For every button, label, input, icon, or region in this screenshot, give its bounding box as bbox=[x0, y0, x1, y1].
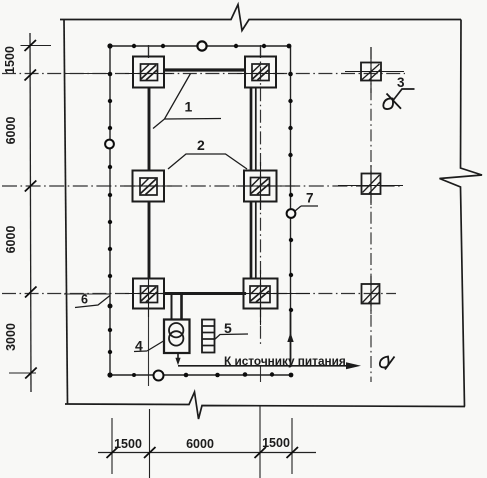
row 1 centerline bbox=[2, 73, 405, 75]
earth electrode E2 (pos.2) row1 col2 bbox=[237, 57, 284, 88]
column 1 vertical conductor upper bbox=[148, 87, 151, 171]
leader of label 2 bbox=[168, 154, 247, 169]
earth electrode E5 (pos.2) row3 col1 bbox=[125, 270, 172, 317]
leader of label 5 bbox=[214, 334, 248, 340]
left dimension ticks bbox=[25, 40, 37, 379]
leader of label 4 bbox=[147, 341, 164, 351]
grounding contour strip right side bbox=[290, 46, 292, 312]
svg-text:5: 5 bbox=[224, 320, 232, 336]
earth electrode E3 (pos.2) row2 col1 bbox=[124, 171, 172, 202]
future electrode (pos.3) row3 col3 bbox=[362, 276, 380, 314]
svg-text:6000: 6000 bbox=[4, 226, 18, 254]
open circle on contour bottom bbox=[154, 371, 164, 381]
future electrode (pos.3) row2 col3 bbox=[338, 165, 403, 205]
left dimension line bbox=[30, 33, 31, 392]
row 3 centerline solid segment wall-to-contour bbox=[64, 293, 110, 295]
stub contour-to-square row1 col1 bbox=[148, 46, 150, 57]
row 3 centerline bbox=[2, 293, 396, 295]
bottom extension line x=292 bbox=[291, 418, 293, 474]
contour electrode dots left side bbox=[107, 72, 112, 378]
leader shelf of label 3 bbox=[393, 89, 415, 101]
svg-text:1500: 1500 bbox=[262, 436, 290, 450]
column 2 line crossing bottom contour bbox=[260, 366, 262, 382]
stub contour-to-square row1 col2 bbox=[260, 46, 262, 57]
future electrode (pos.3) row1 col3 bbox=[345, 47, 404, 93]
svg-text:3000: 3000 bbox=[4, 323, 18, 351]
open circle item 7 on contour right bbox=[287, 209, 296, 218]
column 3 centerline bbox=[370, 47, 372, 382]
transformer box (pos.4) bbox=[164, 320, 190, 354]
transformer output drop with down arrow bbox=[177, 353, 179, 359]
marker glyph of pos.3 (flag) bbox=[383, 98, 393, 109]
contour electrode dots bottom side bbox=[132, 372, 293, 377]
svg-text:1: 1 bbox=[185, 99, 193, 115]
building outline top wall with break bbox=[60, 5, 461, 31]
leader of label 7 bbox=[295, 206, 301, 211]
svg-text:6000: 6000 bbox=[4, 117, 18, 145]
riser to contour with up arrow bbox=[290, 312, 292, 367]
open circle on contour top bbox=[197, 41, 206, 50]
bottom dimension line bbox=[98, 452, 316, 454]
svg-text:3: 3 bbox=[397, 75, 405, 90]
building outline right wall with break bbox=[440, 20, 483, 407]
leader of label 6 bbox=[75, 296, 110, 308]
contour electrode dots top side bbox=[107, 43, 291, 48]
grounding contour strip left side bbox=[109, 46, 111, 375]
svg-text:6: 6 bbox=[81, 293, 88, 307]
column 2 vertical conductor upper (double run) bbox=[250, 87, 253, 171]
column 2 centerline bbox=[260, 45, 262, 344]
ground bus row 3 horizontal conductor bbox=[164, 292, 246, 295]
svg-text:6000: 6000 bbox=[186, 437, 214, 451]
grounding contour strip (pos.6) top side bbox=[110, 45, 289, 47]
bottom extension line x=112 bbox=[111, 418, 113, 474]
building outline left wall bbox=[64, 20, 68, 405]
column 1 centerline bbox=[148, 45, 150, 60]
earth electrode E1 (pos.2) row1 col1 bbox=[125, 57, 172, 88]
leader of label 1 bbox=[153, 74, 191, 129]
building outline bottom wall with break bbox=[65, 392, 465, 419]
section marker glyph near arrow (bottom right) bbox=[380, 357, 389, 368]
earth electrode E6 (pos.2) row3 col2 bbox=[235, 270, 310, 325]
row 2 centerline bbox=[2, 185, 403, 187]
ground bus (pos.1) top horizontal conductor bbox=[163, 68, 245, 71]
svg-text:1500: 1500 bbox=[3, 46, 17, 74]
to-power-source line with arrow bbox=[178, 365, 349, 367]
left dimension extension line at bottom bbox=[9, 372, 36, 374]
contour electrode dots right side bbox=[288, 72, 293, 312]
connection strip ladder (pos.5) bbox=[202, 320, 215, 353]
grounding contour strip bottom side bbox=[110, 374, 291, 376]
svg-text:7: 7 bbox=[306, 191, 314, 206]
column 2 vertical conductor lower (double run) bbox=[250, 202, 253, 279]
svg-text:1500: 1500 bbox=[114, 437, 142, 451]
bottom extension line x=260 bbox=[259, 406, 261, 478]
conductor elbow down to transformer (double run) bbox=[171, 294, 173, 321]
left dimension extension line at contour top bbox=[21, 45, 52, 47]
column 1 line below bottom electrode bbox=[148, 308, 150, 386]
bottom extension line x=149.5 bbox=[149, 409, 151, 478]
bottom dimension ticks bbox=[107, 447, 299, 458]
earth electrode E4 (pos.2) row2 col2 bbox=[236, 162, 295, 210]
row 1 centerline solid segment wall-to-contour bbox=[64, 73, 110, 75]
open circle on contour left bbox=[105, 140, 114, 149]
svg-text:2: 2 bbox=[197, 137, 205, 153]
column 1 vertical conductor lower bbox=[148, 201, 151, 278]
svg-text:К источнику питания: К источнику питания bbox=[224, 354, 346, 368]
